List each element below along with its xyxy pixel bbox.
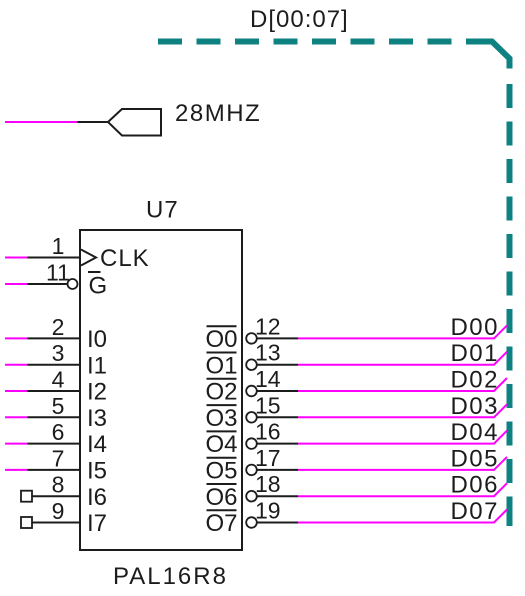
svg-text:I0: I0 [87,326,107,353]
svg-text:O5: O5 [205,458,237,485]
pin 4 (input I2) [5,367,107,406]
wire net D03 (magenta) [298,404,507,417]
pin 17 inversion bubble [246,465,257,476]
svg-text:D03: D03 [450,393,499,420]
svg-text:8: 8 [52,472,65,498]
svg-text:D07: D07 [450,498,499,525]
svg-text:I6: I6 [87,484,107,511]
pin 2 (input I0) [5,314,107,353]
svg-text:19: 19 [255,498,281,524]
IC U7 body (PAL16R8) [80,230,242,550]
wire net D05 (magenta) [298,457,507,470]
pin 19 stub wire [257,522,299,524]
svg-text:I1: I1 [87,352,107,379]
pin 16 (output O4, net D04) [205,419,507,459]
pin 16 inversion bubble [246,438,257,449]
pin 12 stub wire [257,337,299,339]
pin 6 stub wire [28,443,81,445]
bus D[00:07] [158,42,510,527]
pin 14 stub wire [257,390,299,392]
pin 5 stub wire [28,416,81,418]
svg-text:7: 7 [52,445,65,471]
pin name O2 overline [207,378,237,380]
wire 28MHZ net (magenta) [5,121,78,123]
wire pin 5 net (magenta) [5,416,28,418]
svg-text:14: 14 [255,366,281,392]
pin 15 (output O3, net D03) [205,392,507,432]
pin 16 stub wire [257,443,299,445]
svg-text:O7: O7 [205,510,237,537]
pin 14 (output O2, net D02) [205,366,507,406]
wire pin 2 net (magenta) [5,337,28,339]
pin 6 (input I4) [5,419,107,458]
pin name O0 overline [207,325,237,327]
pin name O6 overline [207,483,237,485]
pin 13 (output O1, net D01) [205,340,507,380]
pin 7 stub wire [28,469,81,471]
svg-text:G: G [89,273,108,300]
svg-text:PAL16R8: PAL16R8 [113,563,228,590]
pin 11 inversion bubble [68,279,78,289]
28MHZ flag symbol [108,109,161,136]
pin 4 stub wire [28,390,81,392]
unconnected-stub square pin 9 [21,517,32,528]
pin 13 stub wire [257,364,299,366]
pin 1 stub [28,257,81,259]
wire net D00 (magenta) [298,325,507,338]
svg-text:15: 15 [255,392,281,418]
pin 3 (input I1) [5,340,107,379]
wire pin 4 net (magenta) [5,390,28,392]
svg-text:D00: D00 [450,314,499,341]
pin 18 inversion bubble [246,491,257,502]
wire net D06 (magenta) [298,483,507,496]
wire pin 7 net (magenta) [5,469,28,471]
pin name O5 overline [207,457,237,459]
svg-text:3: 3 [52,340,65,366]
svg-text:D01: D01 [450,340,499,367]
pin name O3 overline [207,404,237,406]
svg-text:O4: O4 [205,431,237,458]
wire net D07 (magenta) [298,510,507,523]
pin 18 stub wire [257,495,299,497]
pin 8 stub wire [32,495,80,497]
wire pin11 net (magenta) [5,283,28,285]
pin 14 inversion bubble [246,386,257,397]
svg-text:28MHZ: 28MHZ [175,100,261,127]
pin 15 stub wire [257,416,299,418]
svg-text:1: 1 [52,233,65,259]
pin 12 (output O0, net D00) [205,313,507,353]
svg-text:17: 17 [255,445,281,471]
pin 19 inversion bubble [246,517,257,528]
pin name O7 overline [207,509,237,511]
svg-text:U7: U7 [146,197,179,224]
pin 17 stub wire [257,469,299,471]
pin 5 (input I3) [5,393,107,432]
wire net D01 (magenta) [298,352,507,365]
svg-text:D02: D02 [450,367,499,394]
svg-text:I3: I3 [87,405,107,432]
pin 13 inversion bubble [246,359,257,370]
pin 17 (output O5, net D05) [205,445,507,485]
pin 7 (input I5) [5,445,107,484]
svg-text:O2: O2 [205,379,237,406]
wire pin 6 net (magenta) [5,443,28,445]
pin 9 (input I7) [21,498,107,537]
svg-text:16: 16 [255,419,281,445]
pin name O4 overline [207,430,237,432]
unconnected-stub square pin 8 [21,491,32,502]
svg-text:CLK: CLK [100,245,150,272]
wire pin1 net (magenta) [5,257,28,259]
svg-text:O1: O1 [205,352,237,379]
svg-text:O6: O6 [205,484,237,511]
svg-text:2: 2 [52,314,65,340]
svg-text:I7: I7 [87,510,107,537]
svg-text:D04: D04 [450,419,499,446]
svg-text:5: 5 [52,393,65,419]
svg-text:I4: I4 [87,431,107,458]
pin 9 stub wire [32,522,80,524]
pin 18 (output O6, net D06) [205,471,507,511]
pin 3 stub wire [28,364,81,366]
svg-text:4: 4 [52,367,65,393]
wire net D04 (magenta) [298,431,507,444]
svg-text:6: 6 [52,419,65,445]
pin name O1 overline [207,352,237,354]
svg-text:9: 9 [52,498,65,524]
pin 12 inversion bubble [246,333,257,344]
pin name G overline [88,271,101,273]
svg-text:O0: O0 [205,326,237,353]
svg-text:D06: D06 [450,472,499,499]
pin 15 inversion bubble [246,412,257,423]
pin 19 (output O7, net D07) [205,498,507,538]
svg-text:18: 18 [255,471,281,497]
svg-text:O3: O3 [205,405,237,432]
wire 28MHZ stub [78,121,109,123]
wire pin 3 net (magenta) [5,364,28,366]
pin 2 stub wire [28,337,81,339]
svg-text:11: 11 [46,260,70,286]
svg-text:D05: D05 [450,445,499,472]
pin 8 (input I6) [21,472,107,511]
pin 11 stub [28,283,68,285]
CLK edge-trigger triangle [81,250,96,266]
svg-text:13: 13 [255,340,281,366]
svg-text:I2: I2 [87,379,107,406]
wire net D02 (magenta) [298,378,507,391]
svg-text:12: 12 [255,313,281,339]
svg-text:I5: I5 [87,458,107,485]
svg-text:D[00:07]: D[00:07] [250,6,349,33]
